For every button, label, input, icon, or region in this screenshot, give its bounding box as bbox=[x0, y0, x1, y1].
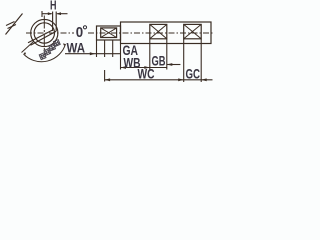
svg-text:WA: WA bbox=[67, 40, 86, 56]
svg-text:H: H bbox=[50, 0, 57, 13]
svg-text:WC: WC bbox=[138, 65, 155, 81]
svg-text:0: 0 bbox=[76, 24, 83, 41]
svg-text:GC: GC bbox=[186, 65, 201, 81]
